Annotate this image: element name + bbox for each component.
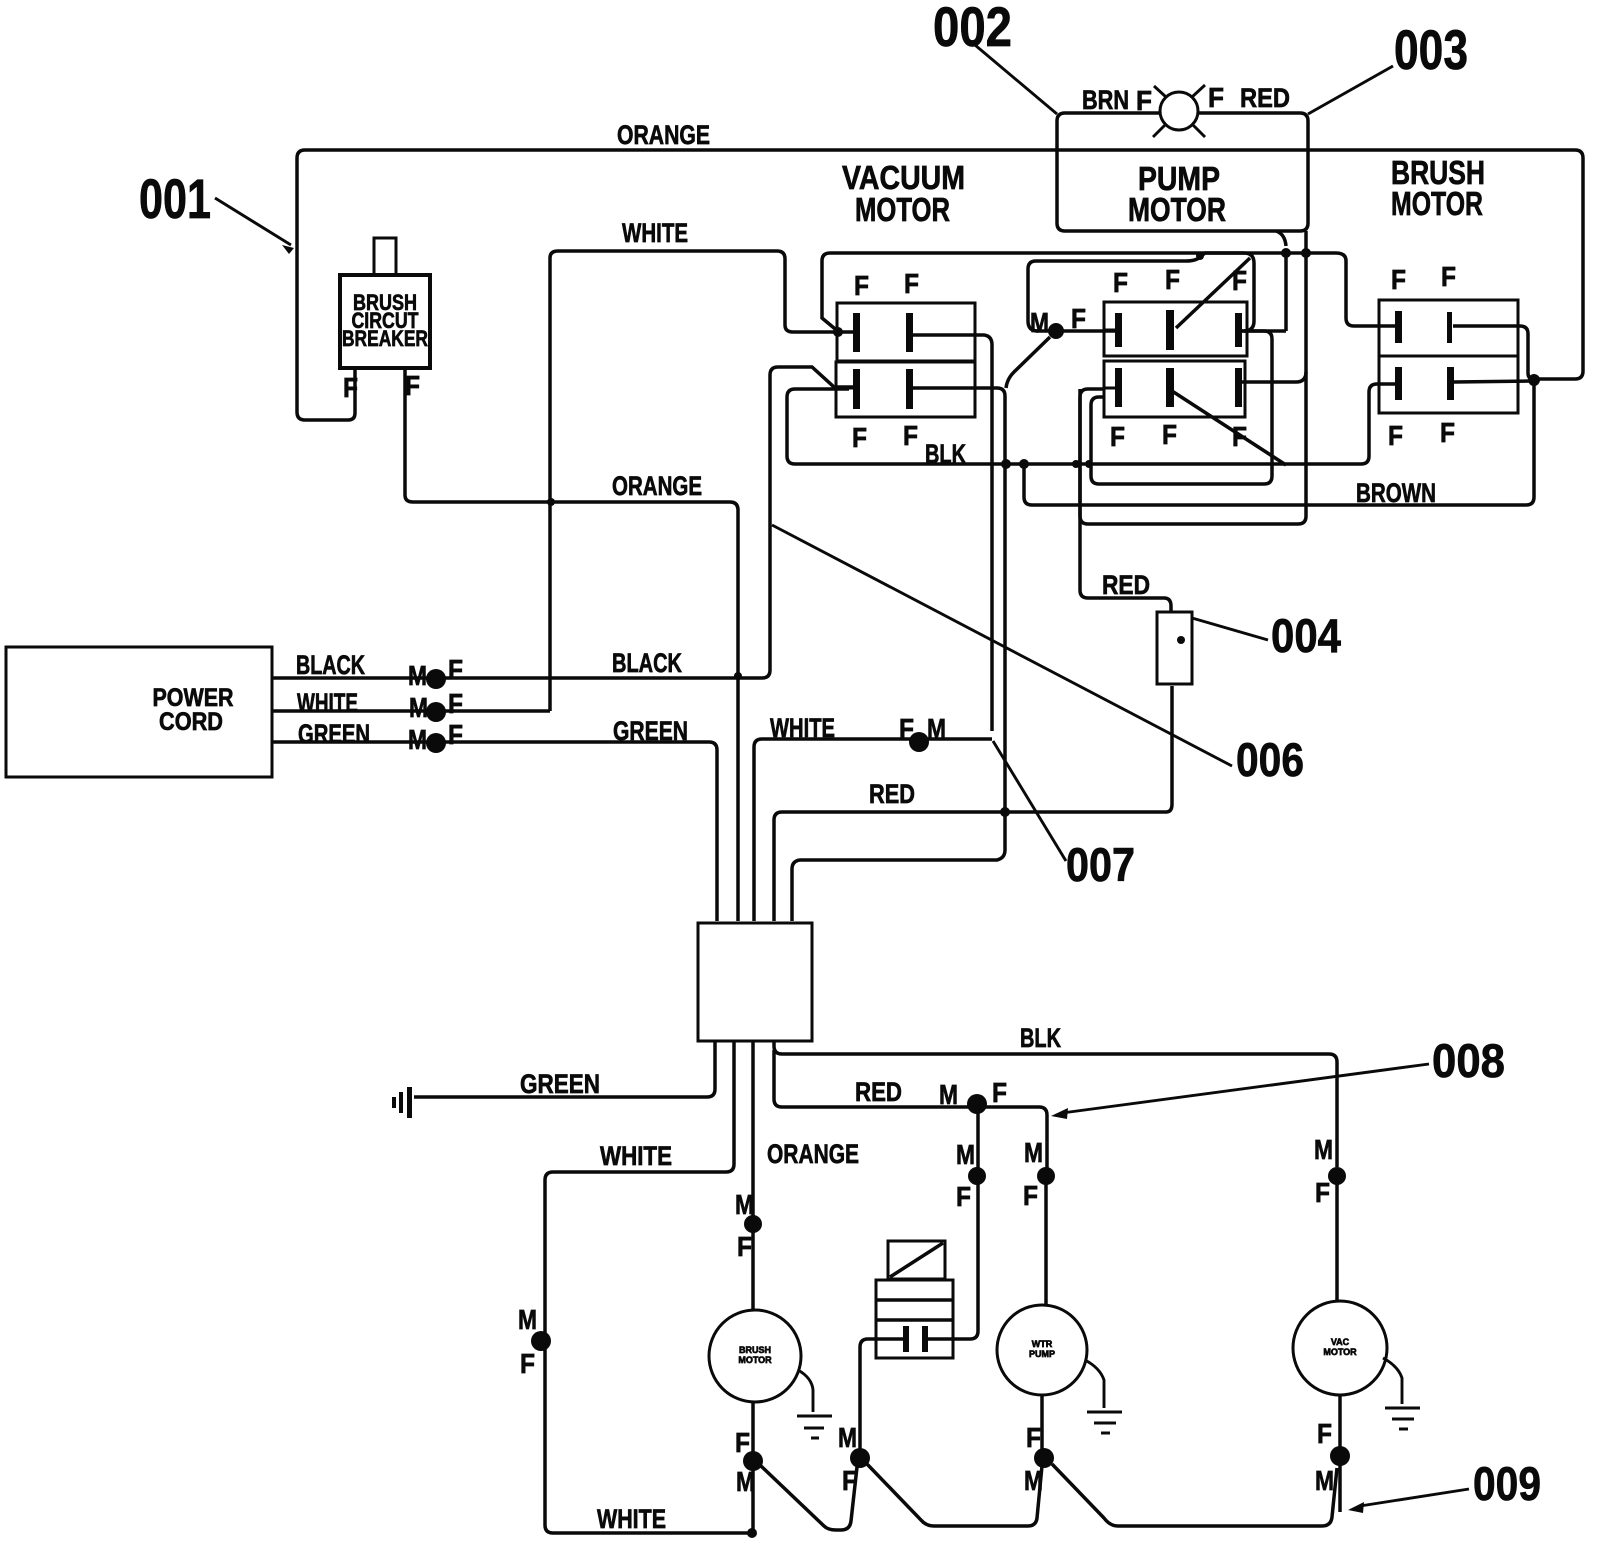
svg-text:M: M bbox=[1024, 1137, 1043, 1168]
svg-text:003: 003 bbox=[1394, 18, 1468, 81]
svg-text:007: 007 bbox=[1066, 838, 1135, 891]
svg-text:008: 008 bbox=[1432, 1034, 1505, 1087]
svg-text:M: M bbox=[927, 713, 946, 744]
svg-text:F: F bbox=[1026, 1422, 1041, 1453]
svg-text:001: 001 bbox=[139, 167, 211, 230]
svg-text:F: F bbox=[737, 1231, 752, 1262]
svg-text:M: M bbox=[1315, 1465, 1334, 1496]
svg-text:M: M bbox=[409, 692, 428, 723]
svg-text:RED: RED bbox=[1102, 570, 1150, 600]
svg-text:PUMP: PUMP bbox=[1029, 1349, 1055, 1359]
svg-text:VAC: VAC bbox=[1331, 1337, 1350, 1347]
svg-text:ORANGE: ORANGE bbox=[617, 120, 710, 150]
svg-text:F: F bbox=[1136, 85, 1152, 116]
svg-text:M: M bbox=[736, 1466, 755, 1497]
svg-text:004: 004 bbox=[1271, 609, 1341, 662]
svg-text:F: F bbox=[1110, 421, 1125, 452]
svg-text:CORD: CORD bbox=[159, 708, 223, 736]
svg-text:GREEN: GREEN bbox=[298, 719, 370, 749]
svg-text:BLACK: BLACK bbox=[296, 650, 365, 680]
svg-text:M: M bbox=[838, 1422, 857, 1453]
svg-text:ORANGE: ORANGE bbox=[612, 471, 702, 501]
svg-text:F: F bbox=[1440, 417, 1455, 448]
svg-text:009: 009 bbox=[1473, 1457, 1541, 1510]
svg-text:F: F bbox=[1317, 1418, 1332, 1449]
svg-text:MOTOR: MOTOR bbox=[855, 191, 950, 228]
svg-text:F: F bbox=[1441, 261, 1456, 292]
svg-text:GREEN: GREEN bbox=[613, 716, 688, 746]
svg-text:M: M bbox=[1030, 307, 1049, 338]
svg-text:F: F bbox=[956, 1181, 971, 1212]
svg-text:BLK: BLK bbox=[1020, 1023, 1061, 1053]
svg-text:F: F bbox=[1162, 419, 1177, 450]
svg-text:F: F bbox=[852, 422, 867, 453]
svg-text:F: F bbox=[842, 1465, 857, 1496]
svg-text:M: M bbox=[939, 1079, 958, 1110]
svg-text:WTR: WTR bbox=[1032, 1339, 1053, 1349]
svg-text:WHITE: WHITE bbox=[600, 1141, 672, 1171]
svg-text:006: 006 bbox=[1236, 733, 1304, 786]
svg-text:BREAKER: BREAKER bbox=[342, 326, 428, 351]
svg-text:MOTOR: MOTOR bbox=[1391, 185, 1483, 222]
svg-text:RED: RED bbox=[1240, 83, 1290, 113]
svg-text:F: F bbox=[904, 268, 919, 299]
svg-text:M: M bbox=[1024, 1465, 1043, 1496]
svg-text:M: M bbox=[518, 1304, 537, 1335]
svg-text:M: M bbox=[1314, 1134, 1333, 1165]
svg-text:F: F bbox=[903, 420, 918, 451]
svg-text:WHITE: WHITE bbox=[770, 713, 835, 743]
svg-text:WHITE: WHITE bbox=[297, 688, 358, 718]
svg-text:F: F bbox=[448, 688, 463, 719]
svg-text:MOTOR: MOTOR bbox=[738, 1355, 772, 1365]
svg-text:F: F bbox=[1315, 1177, 1330, 1208]
svg-text:ORANGE: ORANGE bbox=[767, 1139, 859, 1169]
svg-text:002: 002 bbox=[933, 0, 1012, 58]
svg-text:F: F bbox=[1165, 264, 1180, 295]
svg-text:M: M bbox=[408, 724, 427, 755]
svg-text:BRUSH: BRUSH bbox=[739, 1345, 771, 1355]
svg-text:F: F bbox=[992, 1077, 1007, 1108]
svg-text:F: F bbox=[343, 372, 358, 403]
svg-text:M: M bbox=[408, 660, 427, 691]
svg-text:F: F bbox=[1388, 420, 1403, 451]
svg-text:WHITE: WHITE bbox=[597, 1504, 666, 1534]
svg-text:GREEN: GREEN bbox=[520, 1069, 600, 1099]
svg-text:F: F bbox=[1391, 264, 1406, 295]
svg-text:F: F bbox=[448, 719, 463, 750]
svg-text:F: F bbox=[405, 370, 420, 401]
svg-text:BROWN: BROWN bbox=[1356, 478, 1436, 508]
svg-text:F: F bbox=[854, 270, 869, 301]
svg-text:F: F bbox=[1071, 303, 1086, 334]
svg-text:BLACK: BLACK bbox=[612, 648, 682, 678]
svg-text:F: F bbox=[1023, 1180, 1038, 1211]
svg-text:BRN: BRN bbox=[1082, 85, 1129, 115]
svg-text:F: F bbox=[1208, 82, 1224, 113]
svg-text:M: M bbox=[956, 1139, 975, 1170]
svg-text:RED: RED bbox=[855, 1077, 902, 1107]
svg-text:F: F bbox=[1113, 267, 1128, 298]
svg-text:F: F bbox=[520, 1348, 535, 1379]
svg-text:MOTOR: MOTOR bbox=[1323, 1347, 1357, 1357]
svg-text:WHITE: WHITE bbox=[622, 218, 688, 248]
svg-text:RED: RED bbox=[869, 779, 915, 809]
svg-text:MOTOR: MOTOR bbox=[1128, 191, 1226, 228]
svg-text:F: F bbox=[448, 654, 463, 685]
